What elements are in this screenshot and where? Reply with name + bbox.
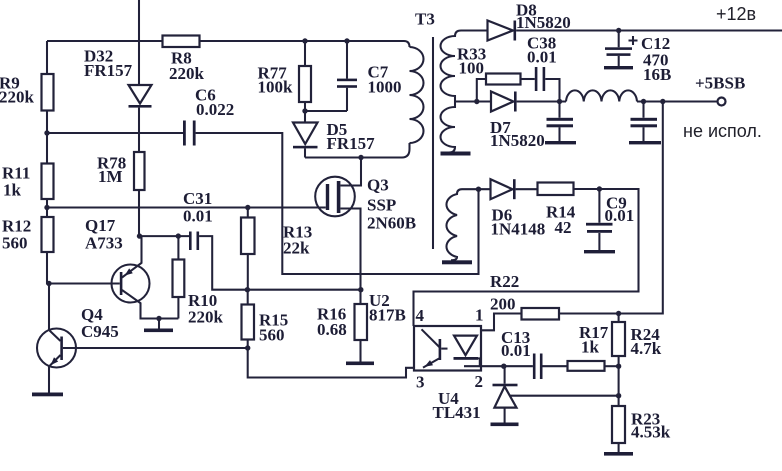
svg-text:0.01: 0.01 — [183, 207, 213, 226]
node: R10 top junction — [176, 233, 181, 238]
svg-text:T3: T3 — [415, 10, 435, 29]
capacitor C7 1000 — [337, 79, 357, 82]
LED (U2) — [454, 336, 477, 356]
diode D5 FR157 — [293, 123, 318, 145]
node: Q4 base / R15 junction — [245, 345, 250, 350]
ground (secondary winding bottom) — [441, 152, 471, 156]
wire: left rail R11 to R12 — [46, 199, 48, 217]
svg-text:FR157: FR157 — [327, 134, 376, 153]
svg-text:1N4148: 1N4148 — [491, 220, 546, 239]
capacitor (filter after D7) — [558, 102, 560, 142]
svg-text:4: 4 — [416, 306, 425, 325]
transformer T3 aux winding — [446, 189, 462, 260]
node: R17/R24 junction — [616, 364, 621, 369]
svg-text:Q3: Q3 — [367, 176, 389, 195]
wire: aux top to D6 — [462, 188, 491, 190]
wire: TL431 ref to divider — [510, 395, 619, 397]
node: R77 top junction — [302, 38, 307, 43]
resistor R12 — [42, 217, 54, 252]
ground (R16) — [346, 362, 374, 366]
resistor R24 4.7k — [612, 322, 625, 356]
wire: main HV top rail y=41 — [47, 41, 410, 47]
wire: winding top to D8 — [461, 29, 488, 31]
MOSFET Q3 SSP2N60B — [315, 177, 355, 217]
diode D8 1N5820 — [488, 21, 514, 41]
node: D7 cathode / C38 junction — [557, 99, 562, 104]
svg-text:220k: 220k — [188, 308, 224, 327]
svg-text:1N5820: 1N5820 — [516, 13, 571, 32]
resistor R14 42 — [538, 183, 574, 196]
resistor R33 100 — [486, 74, 521, 85]
node: R11/R12/gate-rail junction — [44, 205, 49, 210]
ground (Q17 collector node) — [158, 319, 160, 329]
svg-text:2: 2 — [475, 372, 484, 391]
svg-text:1: 1 — [475, 306, 484, 325]
svg-text:22k: 22k — [283, 239, 310, 258]
ground (C9) — [584, 250, 615, 253]
transistor Q17 A733 — [112, 265, 150, 303]
capacitor (filter after L) — [642, 102, 644, 142]
node: R77/C7/D5 junction — [302, 108, 307, 113]
wire: C6 right to aux winding loop (down x282.3, right y274, up x478.5) — [196, 133, 479, 274]
inductor L (5BSB filter) — [566, 90, 637, 101]
ground (Q4 emitter) — [32, 393, 63, 397]
svg-text:560: 560 — [259, 326, 285, 345]
wire: pin2 rail to C13 — [464, 365, 533, 367]
wire: +5BSB feedback down to R22 rail — [559, 102, 663, 314]
ground (filter cap 2) — [629, 141, 661, 144]
node: R22/R24 junction — [616, 311, 621, 316]
svg-text:220k: 220k — [0, 88, 35, 107]
svg-text:1k: 1k — [3, 181, 22, 200]
wire: +12v rail — [516, 29, 782, 31]
node: secondary tap / D7 anode junction — [474, 99, 479, 104]
resistor R23 4.53k — [612, 406, 625, 443]
svg-text:220k: 220k — [169, 64, 205, 83]
svg-text:42: 42 — [555, 218, 572, 237]
wire: R33 to C38 — [521, 78, 535, 80]
capacitor C12 470 16B — [618, 31, 620, 67]
resistor R11 — [42, 164, 54, 200]
capacitor C38 0.01 — [535, 67, 538, 91]
node: Q3 source / R16 junction — [358, 287, 363, 292]
svg-text:1M: 1M — [98, 167, 123, 186]
wire: inductor to +5BSB terminal — [637, 100, 718, 102]
node: R13 bottom junction — [245, 287, 250, 292]
capacitor C13 0.01 — [533, 354, 536, 380]
ground (filter cap 1) — [545, 141, 576, 144]
diode D6 1N4148 — [491, 179, 513, 199]
node: aux winding / D6 anode junction — [476, 187, 481, 192]
transformer T3 secondary winding — [441, 31, 462, 153]
optocoupler U2 817B box — [414, 326, 481, 371]
svg-text:A733: A733 — [85, 234, 123, 253]
capacitor C9 0.01 — [598, 189, 600, 250]
wire: emitter node rail y=236.1 to C31 — [139, 235, 189, 237]
wire: left rail R9 to R11 — [46, 110, 48, 164]
svg-text:C945: C945 — [81, 322, 119, 341]
svg-text:16B: 16B — [643, 65, 671, 84]
svg-text:560: 560 — [2, 234, 28, 253]
wire: R78 down to emitter node — [138, 190, 140, 236]
svg-text:Q17: Q17 — [85, 216, 116, 235]
resistor R77 100k — [299, 66, 311, 102]
resistor R17 1k — [568, 361, 605, 371]
node: filter cap 2 junction — [641, 99, 646, 104]
ground (aux winding bottom) — [442, 260, 472, 264]
resistor R78 1M — [134, 152, 145, 190]
wire: R10 top lead — [177, 236, 179, 259]
resistor R10 220k — [173, 260, 185, 298]
wire: left rail R12 down and over to Q17 base — [47, 252, 120, 284]
node: R9/R11/C6 junction — [44, 130, 49, 135]
resistor R16 0.68 — [355, 304, 368, 340]
wire: R17 to R24/R23 node — [605, 365, 619, 367]
node: pin2/C13/TL431 junction — [501, 364, 506, 369]
svg-text:0.022: 0.022 — [196, 100, 234, 119]
ground (R23) — [604, 452, 633, 456]
svg-text:TL431: TL431 — [433, 403, 481, 422]
wire: C31 right down x212 and right along y=289.7 — [199, 236, 361, 290]
wire: secondary tap to D7 node — [455, 100, 491, 102]
node: +5BSB feedback junction — [660, 99, 665, 104]
svg-text:2N60B: 2N60B — [367, 214, 416, 233]
wire: drain rail y=157.5 into primary bottom — [305, 143, 410, 158]
node: R13 top / gate rail junction — [245, 205, 250, 210]
terminal +5BSB — [718, 98, 726, 106]
diode D32 FR157 — [129, 85, 152, 104]
wire: left rail top segment to R9 — [46, 41, 48, 74]
resistor R9 — [42, 74, 54, 111]
svg-text:не испол.: не испол. — [683, 121, 762, 141]
shunt regulator U4 TL431 — [504, 366, 506, 384]
wire: R14 right, down x638.5, left y291.5, down to U2 pin4 — [414, 189, 639, 326]
svg-text:C31: C31 — [183, 189, 212, 208]
svg-text:1N5820: 1N5820 — [490, 131, 545, 150]
wire: snubber bottom rail y=111 — [305, 110, 347, 112]
transformer T3 core — [432, 37, 434, 249]
svg-text:SSP: SSP — [367, 196, 396, 215]
svg-text:0.01: 0.01 — [501, 341, 531, 360]
svg-text:3: 3 — [416, 373, 425, 392]
capacitor C31 0.01 — [189, 232, 192, 251]
resistor R22 200 — [522, 308, 560, 320]
ground (C12) — [604, 66, 633, 69]
wire: R10 bottom lead — [177, 297, 179, 319]
node: R78/Q17 emitter junction — [137, 233, 142, 238]
svg-text:1k: 1k — [581, 338, 600, 357]
wire: D6 to R14 — [516, 188, 538, 190]
resistor R15 560 — [242, 305, 255, 340]
svg-text:+5BSB: +5BSB — [695, 74, 745, 93]
wire: C13 to R17 — [543, 365, 568, 367]
svg-text:100k: 100k — [258, 78, 294, 97]
node: R14/C9 junction — [597, 186, 602, 191]
svg-text:200: 200 — [490, 295, 516, 314]
resistor R13 22k — [241, 218, 255, 255]
transformer T3 primary winding — [410, 47, 424, 143]
svg-text:4.7k: 4.7k — [631, 339, 662, 358]
svg-text:FR157: FR157 — [84, 61, 133, 80]
wire: D32 cathode down to R78 — [138, 108, 140, 152]
svg-text:0.01: 0.01 — [527, 48, 557, 67]
node: C7 top junction — [344, 38, 349, 43]
node: Q17 collector/R10 ground junction — [156, 316, 161, 321]
svg-text:0.01: 0.01 — [605, 206, 635, 225]
node: TL431 ref / R23 junction — [616, 393, 621, 398]
svg-text:R22: R22 — [490, 272, 519, 291]
wire: R33 left lead from D7 node — [477, 79, 486, 102]
wire: gate rail y=207.5 — [47, 206, 326, 208]
capacitor C6 0.022 — [183, 121, 186, 146]
wire: R22 left to U2 pin1 and LED anode — [464, 314, 522, 336]
node: +12v / C12 junction — [616, 28, 621, 33]
resistor R8 220k — [163, 36, 200, 48]
transistor Q4 C945 — [37, 329, 76, 368]
svg-text:0.68: 0.68 — [317, 320, 347, 339]
wire: D7 cathode rail to inductor — [517, 100, 566, 102]
diode D7 1N5820 — [491, 92, 514, 112]
wire: Q4 base rail y=348 — [63, 347, 248, 349]
svg-text:+12в: +12в — [716, 4, 756, 24]
phototransistor (U2) — [422, 329, 440, 347]
svg-text:817B: 817B — [369, 306, 406, 325]
node: Q3 drain / D5 junction — [358, 155, 363, 160]
wire: y=133 rail from left rail to C6 — [47, 132, 183, 134]
wire: bottom run to U2 pin 3 — [248, 348, 421, 378]
node: Q4 collector / Q17 base junction — [46, 281, 51, 286]
svg-text:4.53k: 4.53k — [631, 423, 671, 442]
svg-text:100: 100 — [459, 59, 485, 78]
wire: vertical from top edge to D32 anode — [138, 0, 140, 85]
ground (TL431 anode) — [491, 423, 519, 427]
svg-text:1000: 1000 — [368, 78, 402, 97]
wire: C38 to D7 cathode node — [545, 79, 559, 102]
